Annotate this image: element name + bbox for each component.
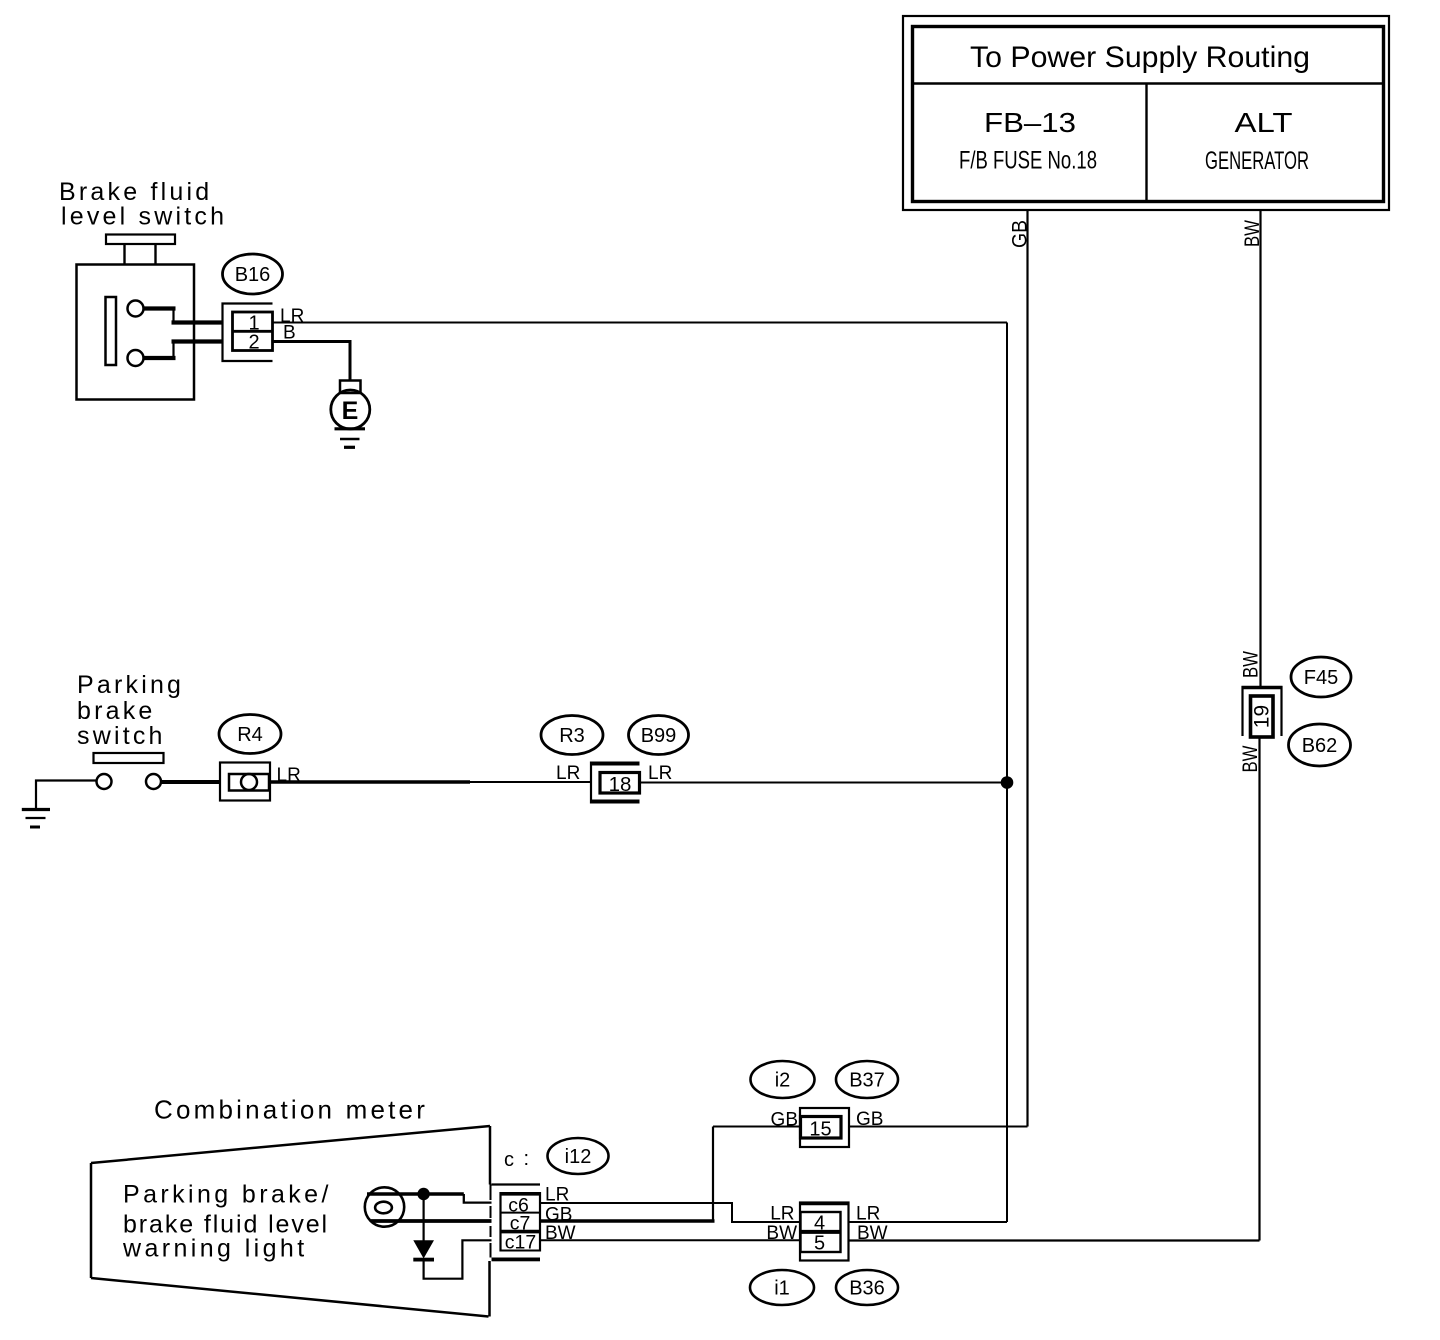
wire c7 (GB) to connector 15 (540, 1219, 715, 1222)
wire 15 right to FB-13 GB line (849, 1126, 1028, 1128)
ground at parking brake switch (22, 781, 97, 828)
junction node at lamp (417, 1188, 429, 1200)
svg-text:F45: F45 (1304, 667, 1338, 689)
svg-text::: : (524, 1148, 530, 1170)
svg-text:R3: R3 (559, 725, 585, 747)
wire LR vertical (1006, 323, 1008, 1223)
svg-text:brake: brake (77, 697, 156, 725)
svg-text:BW: BW (1239, 745, 1262, 772)
diode D (413, 1240, 434, 1258)
svg-text:LR: LR (648, 763, 672, 784)
connector 19 (1242, 686, 1283, 737)
svg-text:19: 19 (1251, 705, 1274, 728)
combination meter outline (91, 1126, 490, 1317)
power supply routing box (903, 16, 1389, 210)
wire switch contact 1 to B16 pin 1 (144, 309, 223, 323)
wire GB vertical from FB-13 (1026, 210, 1028, 1127)
connector B37 ellipse (836, 1061, 898, 1098)
svg-text:15: 15 (809, 1119, 831, 1141)
svg-text:switch: switch (77, 722, 166, 750)
svg-text:ALT: ALT (1235, 107, 1293, 138)
svg-text:E: E (342, 397, 359, 425)
wire junction to diode (423, 1194, 425, 1241)
svg-text:BW: BW (766, 1223, 797, 1244)
svg-text:B62: B62 (1302, 735, 1338, 757)
svg-text:level switch: level switch (61, 203, 227, 231)
wire switch contact 2 to B16 pin 2 (144, 342, 223, 359)
ground E symbol (331, 381, 370, 448)
svg-text:B16: B16 (235, 264, 271, 286)
svg-text:R4: R4 (237, 724, 263, 746)
svg-text:c17: c17 (505, 1232, 536, 1254)
wire c17 (BW) to pin 5 (540, 1239, 800, 1241)
svg-text:LR: LR (770, 1204, 794, 1225)
connector F45 ellipse (1291, 657, 1351, 697)
parking brake switch bar (94, 753, 164, 763)
svg-text:18: 18 (609, 773, 632, 796)
connector i1 ellipse (750, 1270, 814, 1305)
wire c6 (LR) to pin 4 (540, 1203, 800, 1222)
svg-text:i1: i1 (774, 1278, 790, 1300)
connector i12 box c6/c7/c17 (491, 1185, 541, 1262)
junction node (1001, 776, 1014, 789)
wire LR from B16 pin1 (273, 322, 1008, 324)
svg-text:Parking brake/: Parking brake/ (123, 1181, 332, 1209)
wire switch to R4 (161, 780, 220, 784)
svg-text:GENERATOR: GENERATOR (1205, 147, 1309, 175)
connector i2 ellipse (751, 1061, 815, 1098)
wire diode to c17 (424, 1240, 492, 1278)
svg-text:i2: i2 (775, 1070, 791, 1092)
connector B16 ellipse (223, 254, 283, 294)
brake fluid level switch body (77, 235, 195, 400)
svg-text:5: 5 (814, 1233, 825, 1255)
connector B99 ellipse (629, 716, 689, 755)
svg-text:4: 4 (814, 1213, 825, 1235)
wire 15 left to GB vertical (713, 1126, 800, 1128)
svg-text:BW: BW (1240, 651, 1263, 678)
wire pin 4 to LR vertical (849, 1221, 1008, 1223)
svg-text:Combination meter: Combination meter (154, 1095, 428, 1125)
svg-text:LR: LR (556, 763, 580, 784)
wire lamp bottom (GB) to c7 (371, 1219, 492, 1223)
connector R4 box (220, 763, 270, 801)
svg-text:BW: BW (1241, 220, 1264, 247)
wire pin 5 to BW vertical (849, 1239, 1260, 1241)
svg-text:warning light: warning light (122, 1235, 308, 1263)
svg-text:i12: i12 (565, 1146, 592, 1168)
wire BW vertical from ALT (1259, 210, 1261, 687)
wire (thin) to joint connector (470, 781, 591, 783)
connector i12 ellipse (548, 1138, 609, 1174)
svg-text:2: 2 (248, 332, 259, 354)
joint connector 15 (800, 1108, 849, 1147)
svg-text:To Power Supply Routing: To Power Supply Routing (970, 41, 1310, 74)
connector B62 ellipse (1289, 724, 1351, 766)
wire joint connector to junction (640, 782, 1003, 784)
connector R4 ellipse (219, 715, 281, 754)
wire B from B16 pin2 to ground (273, 342, 351, 381)
connector R3 ellipse (541, 716, 603, 755)
joint connector 18 (591, 762, 640, 804)
svg-text:F/B FUSE No.18: F/B FUSE No.18 (959, 147, 1097, 175)
warning lamp (365, 1187, 404, 1226)
svg-text:FB–13: FB–13 (984, 107, 1076, 138)
svg-text:B36: B36 (849, 1278, 885, 1300)
svg-text:B99: B99 (641, 725, 677, 747)
switch contact circles (97, 774, 112, 789)
wire BW vertical lower (1258, 738, 1260, 1241)
svg-text:c: c (504, 1149, 514, 1171)
connector B16 box pins 1,2 (223, 304, 273, 362)
wire R4 to joint connector (thick) (270, 780, 470, 784)
connector B36 ellipse (836, 1270, 898, 1305)
svg-text:B37: B37 (849, 1070, 885, 1092)
connector i1/B36 box pins 4,5 (800, 1203, 849, 1261)
svg-text:Parking: Parking (77, 671, 184, 699)
svg-text:GB: GB (1009, 220, 1032, 248)
wire lamp top to c6 (367, 1194, 492, 1203)
